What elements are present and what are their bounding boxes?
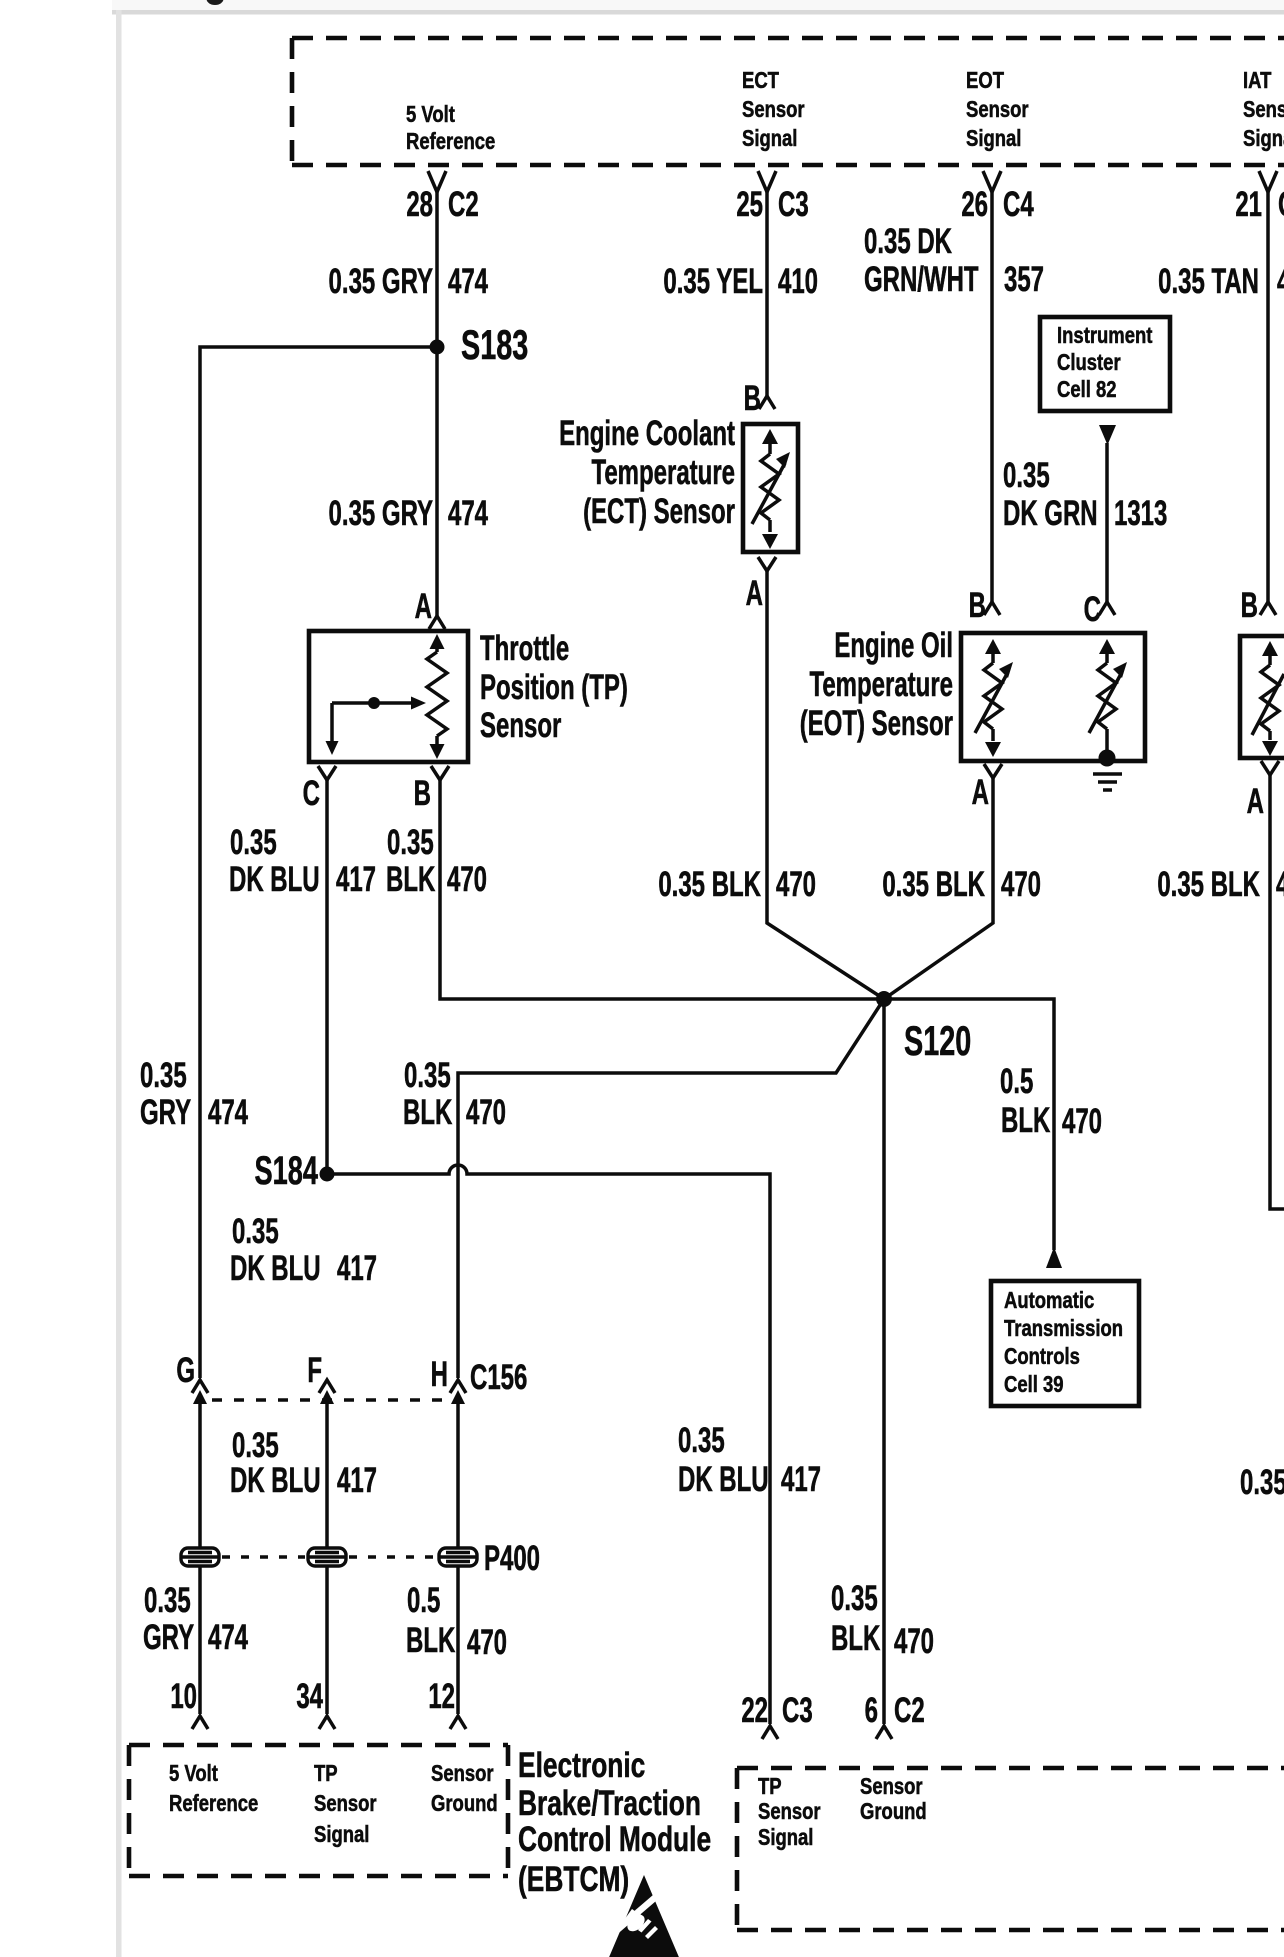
pin A fork below EOT sensor — [972, 764, 1002, 812]
component label: Throttle Position (TP) Sensor — [480, 630, 628, 745]
ECT thermistor — [752, 429, 790, 549]
svg-text:Sensor: Sensor — [860, 1774, 923, 1800]
svg-text:(ECT) Sensor: (ECT) Sensor — [583, 493, 735, 531]
svg-text:B: B — [1241, 587, 1258, 625]
svg-text:Control Module: Control Module — [518, 1819, 711, 1859]
svg-text:Signal: Signal — [1243, 126, 1284, 152]
svg-text:C: C — [303, 775, 320, 813]
svg-text:0.35 BLK: 0.35 BLK — [1157, 866, 1260, 904]
svg-text:IAT: IAT — [1243, 68, 1271, 94]
svg-text:474: 474 — [208, 1094, 248, 1132]
svg-text:Temperature: Temperature — [591, 454, 735, 492]
svg-text:EOT: EOT — [966, 68, 1004, 94]
wire label 0.35 BLK 470 (ECT side) — [658, 866, 816, 904]
svg-text:P400: P400 — [484, 1540, 540, 1578]
svg-text:474: 474 — [448, 495, 488, 533]
svg-text:ECT: ECT — [742, 68, 779, 94]
svg-text:Throttle: Throttle — [480, 630, 569, 668]
pin A chevron above TP sensor — [415, 588, 445, 629]
svg-text:470: 470 — [447, 861, 487, 899]
svg-text:0.35: 0.35 — [1240, 1464, 1284, 1502]
svg-text:Engine Oil: Engine Oil — [834, 627, 953, 665]
svg-text:C2: C2 — [894, 1692, 925, 1730]
svg-text:C156: C156 — [470, 1359, 527, 1397]
wire label 0.35 GRY 474 (left column) — [140, 1057, 248, 1132]
off-page arrow from instrument cluster — [1099, 425, 1116, 445]
wire label 0.35 BLK 470 (IAT side, clipped) — [1157, 866, 1284, 904]
svg-text:0.35 DK: 0.35 DK — [864, 223, 952, 261]
svg-text:Position (TP): Position (TP) — [480, 669, 628, 707]
svg-text:0.35 TAN: 0.35 TAN — [1158, 263, 1259, 301]
svg-text:470: 470 — [1001, 866, 1041, 904]
svg-text:Sensor: Sensor — [742, 97, 805, 123]
svg-text:0.35 YEL: 0.35 YEL — [663, 263, 763, 301]
TP wiper arm with junction dot — [326, 697, 427, 756]
EOT thermistor C side with case ground — [1089, 639, 1127, 767]
wire label 0.35 DK BLU 417 (below C156) — [230, 1427, 377, 1500]
svg-text:Engine Coolant: Engine Coolant — [559, 415, 735, 453]
net label: TP Sensor Signal (EBTCM) — [314, 1761, 377, 1848]
svg-text:Sensor: Sensor — [966, 97, 1029, 123]
svg-text:C3: C3 — [778, 186, 809, 224]
wire 470 BLK from S120 down to pin 6 C2 — [882, 999, 886, 1724]
wire label 0.35 BLK 470 (below TP) — [386, 824, 487, 899]
wire 474 GRY from P400 to pin 10 — [198, 1565, 202, 1714]
svg-text:417: 417 — [781, 1461, 821, 1499]
svg-text:0.35 BLK: 0.35 BLK — [882, 866, 985, 904]
svg-text:A: A — [972, 774, 989, 812]
svg-text:0.35 GRY: 0.35 GRY — [329, 263, 433, 301]
pin B fork below TP sensor — [414, 766, 449, 813]
svg-text:417: 417 — [337, 1250, 377, 1288]
connector C156 pin H — [431, 1356, 528, 1549]
wire label 0.35 DK BLU 417 (to pin 22) — [678, 1422, 821, 1499]
svg-text:0.35: 0.35 — [230, 824, 277, 862]
svg-text:0.35: 0.35 — [232, 1213, 279, 1251]
wire 470 BLK from P400 to pin 12 — [456, 1565, 460, 1714]
svg-text:BLK: BLK — [386, 861, 436, 899]
svg-text:0.35: 0.35 — [232, 1427, 279, 1465]
pin A fork below ECT sensor — [746, 557, 776, 613]
svg-text:(EBTCM): (EBTCM) — [518, 1859, 629, 1899]
wire 474 GRY from pin 28 to S183 and TP sensor A — [435, 192, 439, 616]
svg-text:F: F — [307, 1352, 322, 1390]
svg-text:DK BLU: DK BLU — [678, 1461, 769, 1499]
net label: TP Sensor Signal (PCM) — [758, 1774, 821, 1851]
svg-text:Signal: Signal — [966, 126, 1021, 152]
wire label 0.35 GRY 474 (bottom) — [143, 1582, 248, 1657]
splice S184 — [255, 1149, 335, 1193]
pin C fork below TP sensor — [303, 766, 336, 813]
EBTCM module box (dashed) — [129, 1745, 508, 1876]
svg-text:470: 470 — [466, 1094, 506, 1132]
net label: Sensor Ground (PCM) — [860, 1774, 927, 1825]
wire 1313 DK GRN from cluster to EOT C — [1105, 443, 1109, 602]
svg-text:B: B — [969, 587, 986, 625]
wire label 0.35 BLK 470 (branch) — [403, 1057, 506, 1132]
svg-text:28: 28 — [406, 186, 433, 224]
wire 357 DK GRN/WHT from pin 26 to EOT B — [990, 192, 994, 602]
svg-text:470: 470 — [1277, 263, 1284, 301]
wire 417 DK BLU from TP C to S184 — [325, 780, 329, 1174]
wire label 0.35 DK GRN 1313 — [1003, 457, 1167, 533]
wire label 0.5 BLK 470 (bottom) — [406, 1582, 507, 1662]
pass-through grommet P400 on DK BLU wire — [308, 1548, 346, 1566]
wire label 0.35 DK BLU 417 (below TP) — [229, 824, 376, 899]
component label: Engine Oil Temperature (EOT) Sensor — [800, 627, 954, 743]
svg-text:12: 12 — [428, 1678, 455, 1716]
svg-text:410: 410 — [778, 263, 818, 301]
svg-text:S183: S183 — [461, 322, 528, 369]
svg-text:26: 26 — [961, 186, 988, 224]
svg-text:417: 417 — [337, 1462, 377, 1500]
svg-text:BLK: BLK — [1001, 1102, 1051, 1140]
splice S120 — [876, 991, 971, 1064]
svg-text:C2: C2 — [448, 186, 479, 224]
wire 470 BLK sensor ground branch to H/C156 — [458, 999, 884, 1378]
splice S183 — [430, 322, 529, 369]
svg-text:Ground: Ground — [431, 1791, 498, 1817]
svg-text:Sensor: Sensor — [480, 707, 562, 745]
intake air temperature (IAT) sensor box (clipped) — [1240, 636, 1284, 758]
module label: Electronic Brake/Traction Control Module (EBTCM) — [518, 1745, 711, 1899]
svg-text:S120: S120 — [904, 1018, 971, 1065]
svg-text:Reference: Reference — [406, 129, 496, 155]
svg-text:0.35: 0.35 — [387, 824, 434, 862]
svg-text:0.5: 0.5 — [407, 1582, 440, 1620]
wire label 0.35 BLK 470 (to pin 6) — [831, 1580, 934, 1661]
ESD sensitivity symbol — [607, 1875, 681, 1957]
svg-text:TP: TP — [314, 1761, 338, 1787]
svg-text:A: A — [746, 575, 763, 613]
TP potentiometer resistor — [427, 642, 447, 751]
pin 6 C2 chevron at PCM — [865, 1692, 925, 1739]
automatic transmission controls box Cell 39 — [991, 1281, 1139, 1406]
pin B chevron above IAT sensor — [1241, 587, 1276, 625]
instrument cluster box Cell 82 — [1040, 317, 1170, 411]
wire 417 DK BLU from S184 to pin 22 C3 with hop over BLK wire — [327, 1165, 770, 1724]
EOT thermistor B side — [975, 639, 1013, 757]
IAT thermistor — [1252, 641, 1284, 756]
svg-text:BLK: BLK — [403, 1094, 453, 1132]
ground symbol below EOT — [1093, 774, 1122, 790]
svg-text:Cluster: Cluster — [1057, 350, 1121, 376]
pin A fork below IAT sensor — [1247, 761, 1279, 821]
wire label 0.35 YEL 410 — [663, 263, 818, 301]
svg-text:C4: C4 — [1003, 186, 1034, 224]
svg-text:BLK: BLK — [406, 1622, 456, 1660]
pin 12 chevron at EBTCM — [428, 1678, 466, 1729]
wire 470 BLK from IAT A exiting right edge — [1270, 775, 1284, 1209]
svg-text:Signal: Signal — [742, 126, 797, 152]
pin 34 chevron at EBTCM — [296, 1678, 335, 1729]
svg-text:Ground: Ground — [860, 1799, 927, 1825]
wire 470 BLK from TP B to S120 — [440, 780, 884, 999]
svg-text:Temperature: Temperature — [809, 666, 953, 704]
svg-text:DK GRN: DK GRN — [1003, 495, 1098, 533]
net label: 5 Volt Reference — [406, 102, 496, 155]
svg-text:GRN/WHT: GRN/WHT — [864, 261, 979, 299]
svg-text:6: 6 — [865, 1692, 878, 1730]
wire label 0.5 BLK 470 — [1000, 1063, 1102, 1141]
TP resistor top arrow — [430, 634, 445, 649]
svg-text:C1: C1 — [1278, 186, 1284, 224]
svg-text:470: 470 — [1276, 866, 1284, 904]
svg-text:34: 34 — [296, 1678, 323, 1716]
svg-text:5 Volt: 5 Volt — [169, 1761, 218, 1787]
svg-text:B: B — [744, 380, 761, 418]
connector pin 21 C1 (clipped) — [1235, 171, 1284, 224]
wire label 0.35 DK BLU 417 (below S184) — [230, 1213, 377, 1288]
module box (dashed): 5V ref / sensor signals — [292, 38, 1284, 165]
wire label 0.35 GRY 474 (upper) — [329, 263, 489, 301]
net label: Sensor Ground (EBTCM) — [431, 1761, 498, 1817]
svg-text:B: B — [414, 775, 431, 813]
net label: 5 Volt Reference (EBTCM) — [169, 1761, 259, 1817]
svg-text:0.35: 0.35 — [831, 1580, 878, 1618]
svg-text:474: 474 — [208, 1619, 248, 1657]
svg-text:10: 10 — [170, 1678, 197, 1716]
component label: Engine Coolant Temperature (ECT) Sensor — [559, 415, 735, 531]
net label: IAT Sensor Signal (clipped) — [1243, 68, 1284, 152]
svg-text:5 Volt: 5 Volt — [406, 102, 455, 128]
svg-text:(EOT) Sensor: (EOT) Sensor — [800, 705, 954, 743]
dashed connector line C156 — [212, 1398, 444, 1402]
svg-text:Cell 39: Cell 39 — [1004, 1372, 1064, 1398]
net label: EOT Sensor Signal — [966, 68, 1029, 152]
wire 410 YEL from pin 25 to ECT B — [765, 192, 769, 396]
svg-text:S184: S184 — [255, 1149, 319, 1193]
connector pin 28 C2 — [406, 171, 478, 224]
partial glyph cut off at top — [207, 0, 224, 5]
wire label 0.35 GRY 474 (below S183) — [329, 495, 489, 533]
svg-text:0.35: 0.35 — [1003, 457, 1050, 495]
svg-text:Reference: Reference — [169, 1791, 259, 1817]
svg-text:470: 470 — [894, 1623, 934, 1661]
svg-text:H: H — [431, 1356, 448, 1394]
svg-text:Brake/Traction: Brake/Traction — [518, 1783, 701, 1823]
svg-text:470: 470 — [467, 1624, 507, 1662]
svg-text:Sensor: Sensor — [431, 1761, 494, 1787]
viewer chrome top band — [112, 0, 1284, 15]
svg-text:TP: TP — [758, 1774, 782, 1800]
pin 22 C3 chevron at PCM — [741, 1692, 812, 1739]
svg-text:Controls: Controls — [1004, 1344, 1080, 1370]
pin 10 chevron at EBTCM — [170, 1678, 208, 1729]
svg-text:1313: 1313 — [1114, 495, 1167, 533]
pin B chevron above EOT sensor — [969, 587, 1000, 625]
engine oil temperature (EOT) sensor box — [961, 633, 1145, 761]
svg-text:Cell 82: Cell 82 — [1057, 377, 1117, 403]
svg-text:357: 357 — [1004, 261, 1044, 299]
svg-text:A: A — [415, 588, 432, 626]
svg-text:0.35: 0.35 — [404, 1057, 451, 1095]
svg-text:22: 22 — [741, 1692, 768, 1730]
svg-text:Signal: Signal — [314, 1822, 369, 1848]
svg-text:DK BLU: DK BLU — [230, 1250, 321, 1288]
svg-text:Sensor: Sensor — [758, 1799, 821, 1825]
pin C chevron above EOT sensor — [1084, 591, 1115, 629]
svg-text:0.35: 0.35 — [140, 1057, 187, 1095]
svg-text:Instrument: Instrument — [1057, 323, 1152, 349]
svg-text:417: 417 — [336, 861, 376, 899]
wire from pin 21 to IAT B — [1266, 192, 1270, 602]
svg-text:Automatic: Automatic — [1004, 1288, 1095, 1314]
svg-text:474: 474 — [448, 263, 488, 301]
wire 470 BLK from EOT A to S120 — [884, 778, 993, 999]
pass-through grommet P400 on BLK wire — [439, 1540, 540, 1578]
svg-text:C: C — [1084, 591, 1101, 629]
svg-text:Sensor: Sensor — [1243, 97, 1284, 123]
svg-text:Sensor: Sensor — [314, 1791, 377, 1817]
wire 417 DK BLU from P400 to pin 34 — [325, 1565, 329, 1714]
svg-text:Electronic: Electronic — [518, 1745, 645, 1785]
svg-text:G: G — [176, 1352, 195, 1390]
pin B chevron above ECT sensor — [744, 380, 775, 418]
wire 470 BLK 0.5 branch from S120 to transmission controls — [884, 999, 1054, 1250]
svg-text:0.5: 0.5 — [1000, 1063, 1033, 1101]
wire label 0.35 TAN 470 (clipped) — [1158, 263, 1284, 301]
svg-text:DK BLU: DK BLU — [230, 1462, 321, 1500]
svg-text:0.35 GRY: 0.35 GRY — [329, 495, 433, 533]
off-page arrow to transmission controls — [1046, 1247, 1062, 1268]
svg-text:470: 470 — [1062, 1103, 1102, 1141]
connector C156 pin F — [307, 1352, 335, 1549]
svg-text:21: 21 — [1235, 186, 1262, 224]
viewer chrome left vertical strip — [116, 10, 122, 1957]
wire 474 GRY branch left from S183 down to G — [200, 347, 437, 1378]
throttle position sensor box — [309, 631, 468, 762]
engine coolant temperature (ECT) sensor box — [743, 424, 798, 552]
svg-text:Transmission: Transmission — [1004, 1316, 1123, 1342]
svg-text:A: A — [1247, 783, 1264, 821]
svg-text:0.35: 0.35 — [144, 1582, 191, 1620]
svg-text:0.35: 0.35 — [678, 1422, 725, 1460]
svg-text:C3: C3 — [782, 1692, 813, 1730]
connector pin 26 C4 — [961, 171, 1034, 224]
pass-through grommet P400 on GRY wire — [181, 1548, 219, 1566]
net label: ECT Sensor Signal — [742, 68, 805, 152]
svg-text:0.35 BLK: 0.35 BLK — [658, 866, 761, 904]
svg-text:GRY: GRY — [143, 1619, 194, 1657]
TP resistor bottom arrow — [430, 744, 445, 759]
svg-text:BLK: BLK — [831, 1620, 881, 1658]
svg-text:470: 470 — [776, 866, 816, 904]
wire label 0.35 DK GRN/WHT 357 — [864, 223, 1044, 299]
svg-text:Signal: Signal — [758, 1825, 813, 1851]
svg-text:GRY: GRY — [140, 1094, 191, 1132]
connector C156 pin G — [176, 1352, 208, 1549]
svg-text:DK BLU: DK BLU — [229, 861, 320, 899]
connector pin 25 C3 — [736, 171, 808, 224]
dashed line between P400 grommets — [222, 1555, 436, 1559]
PCM module box (dashed, clipped) — [737, 1768, 1284, 1930]
wire label 0.35 BLK 470 (EOT side) — [882, 866, 1041, 904]
wire 470 BLK from ECT A to S120 — [767, 571, 884, 999]
svg-text:25: 25 — [736, 186, 763, 224]
